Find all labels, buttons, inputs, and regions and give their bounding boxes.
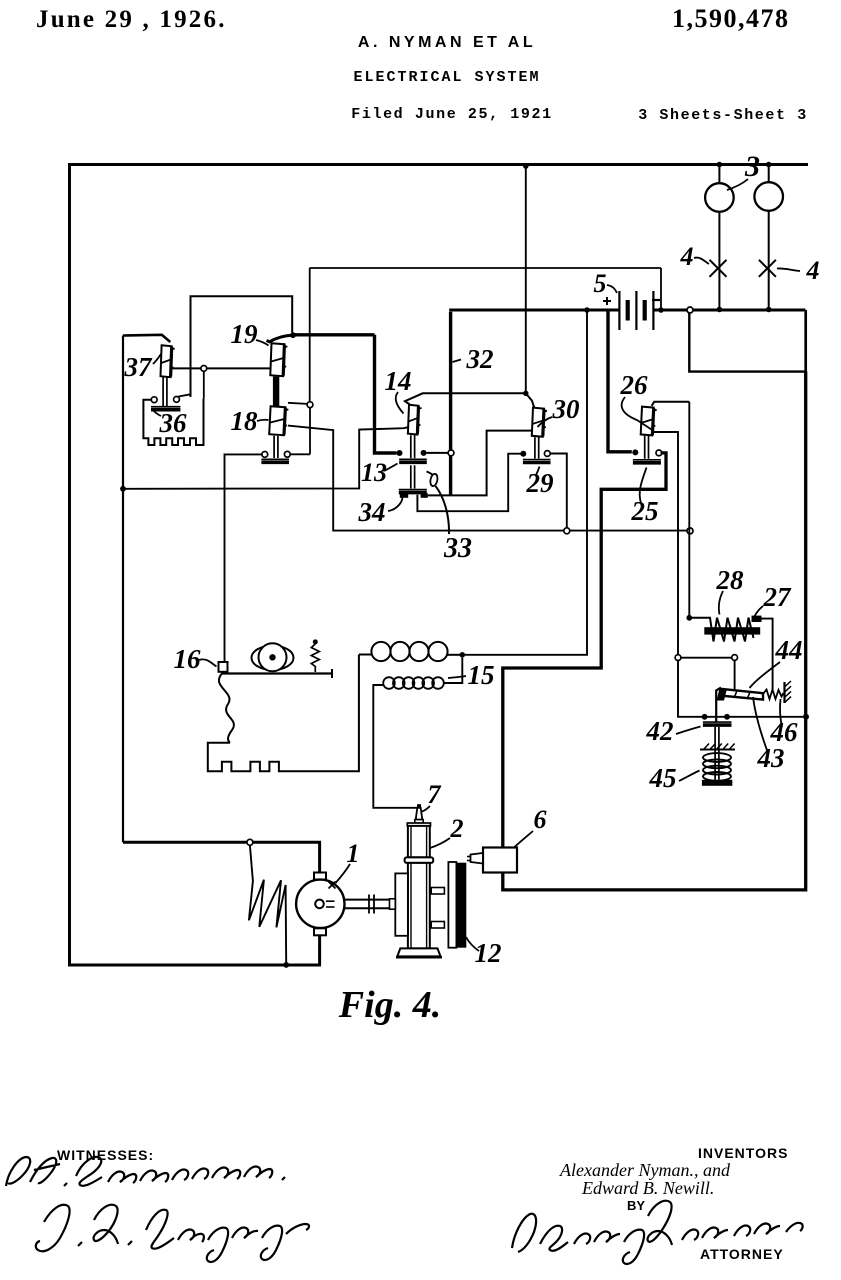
junction battery-left <box>584 307 590 313</box>
spark plug 7 <box>417 804 421 808</box>
contact 13 right <box>421 450 427 456</box>
relay coil 30 <box>532 408 544 437</box>
armature T-bar 42 <box>703 721 732 723</box>
leader 16 <box>199 659 217 666</box>
wire to 18 right contact h <box>290 453 310 455</box>
leader 4 right <box>777 268 800 271</box>
svg-text:36: 36 <box>159 408 188 438</box>
svg-text:BY: BY <box>627 1198 645 1213</box>
wire 26 hat lead <box>652 402 690 406</box>
coupling a <box>368 895 370 914</box>
junction 15 <box>460 652 466 658</box>
wire 37-19 y368 <box>171 367 270 369</box>
leader 13 <box>384 464 398 472</box>
leader 27 <box>753 606 764 622</box>
wire x309 drop to relay 18 contact <box>309 268 311 402</box>
junction spring-y842 <box>247 839 253 845</box>
rod 14 lower <box>410 465 412 488</box>
leader 42 <box>676 727 701 735</box>
leader 3 <box>727 179 748 190</box>
core dot 16 <box>269 654 275 660</box>
spring 46 anchor hatching <box>783 682 785 703</box>
battery + thick lead to 25 left contact <box>608 310 632 452</box>
bus wire left of battery <box>449 309 619 312</box>
leader 33 <box>436 486 450 534</box>
wire x661 drop <box>660 268 662 309</box>
svg-text:33: 33 <box>443 533 472 564</box>
leader 15 <box>448 676 466 678</box>
svg-text:30: 30 <box>552 394 581 424</box>
contact 13 left <box>397 450 403 456</box>
svg-text:3: 3 <box>744 150 760 183</box>
battery 5 plates <box>618 291 620 330</box>
gear 12 toothed band <box>456 863 466 948</box>
leader 37 <box>153 354 161 364</box>
leader 14 <box>396 392 404 414</box>
contact 37 left <box>151 397 157 403</box>
terminal x678 <box>675 655 681 661</box>
svg-text:45: 45 <box>649 763 677 793</box>
relay coil 37 <box>161 345 172 377</box>
leader 36 <box>154 411 162 417</box>
wire 26 side lead down to 42 <box>653 432 678 655</box>
armature T-bar 25 <box>633 459 661 461</box>
junction border-42 <box>803 714 809 720</box>
wire y657 to arm pivot <box>681 657 732 659</box>
coil 15 secondary right lead <box>444 658 463 683</box>
svg-text:43: 43 <box>757 743 785 773</box>
terminal y530 b <box>687 528 693 534</box>
svg-text:1: 1 <box>347 839 360 868</box>
svg-text:2: 2 <box>450 814 464 843</box>
switch 4a <box>710 260 727 277</box>
comb 36 sawtooth <box>143 399 203 445</box>
coil 15 secondary <box>383 677 395 689</box>
armature bar 16 <box>222 672 332 674</box>
loop mark 33 <box>429 473 438 487</box>
junction x123-y488 <box>120 486 126 492</box>
wire 18 lower side lead <box>288 426 687 531</box>
motor 1 top terminal <box>314 873 326 880</box>
motor bottom lead <box>318 935 321 965</box>
leader 7 <box>422 806 430 812</box>
svg-text:June 29 , 1926.: June 29 , 1926. <box>36 6 227 33</box>
svg-text:25: 25 <box>631 496 659 526</box>
svg-text:A. NYMAN ET AL: A. NYMAN ET AL <box>358 34 536 51</box>
svg-text:27: 27 <box>763 582 793 612</box>
svg-text:4: 4 <box>806 256 820 285</box>
lamp 3a lower lead <box>718 212 720 310</box>
engine left bracket <box>395 873 408 935</box>
contact 25 left <box>632 449 638 455</box>
leader 6 <box>515 831 534 847</box>
drop to comb 36 <box>203 371 205 398</box>
junction lamp3b-border <box>766 162 772 168</box>
svg-text:42: 42 <box>646 716 674 746</box>
contact 18 left <box>262 452 268 458</box>
wire 13 right contact to 32 <box>427 452 448 454</box>
svg-text:16: 16 <box>174 644 202 674</box>
engine base <box>397 948 440 956</box>
thick wire y335 <box>293 333 375 336</box>
coupling b <box>373 895 375 914</box>
svg-text:19: 19 <box>231 319 259 349</box>
outer border bottom <box>68 964 321 967</box>
svg-text:29: 29 <box>526 468 555 498</box>
terminal 18 upper <box>307 402 313 408</box>
engine cylinder 2 upper <box>407 823 430 826</box>
contact 18 right <box>284 451 290 457</box>
leader 33 tail <box>427 472 433 475</box>
wire 18 left contact to device 16 <box>225 454 263 661</box>
svg-text:WITNESSES:: WITNESSES: <box>57 1147 154 1163</box>
thick wire 25 to box 6 to right border <box>503 371 806 890</box>
armature T-bar 18 <box>261 458 289 460</box>
wire 34 to relay 30 coil <box>428 431 532 496</box>
leader 43 <box>753 697 768 753</box>
terminal on wire 37-19 <box>201 366 207 372</box>
leader 46 <box>780 699 782 727</box>
wire y371 to x689 riser to bus <box>689 313 804 371</box>
rod 14 upper <box>410 435 412 458</box>
leader 34 <box>388 498 403 512</box>
svg-text:32: 32 <box>466 344 494 374</box>
leader 25 <box>640 468 647 504</box>
coil 15 primary <box>371 642 390 661</box>
svg-text:44: 44 <box>775 635 803 665</box>
condenser box 6 <box>483 848 517 873</box>
motor shaft small circle <box>315 900 324 909</box>
svg-text:1,590,478: 1,590,478 <box>672 4 790 33</box>
base plate 45 <box>702 780 732 786</box>
leader 30 <box>538 417 553 427</box>
wire 18 coil top lead <box>288 403 307 404</box>
junction spring-bottom <box>283 962 289 968</box>
wire x689 down through y530 to resistor <box>688 402 690 618</box>
leader 19 <box>256 340 269 346</box>
contact 29 right <box>544 451 550 457</box>
svg-text:Filed June 25, 1921: Filed June 25, 1921 <box>351 106 552 123</box>
spring 46 <box>763 690 784 700</box>
coil 15 secondary left lead to plug <box>373 685 416 808</box>
leader 1 <box>336 864 351 883</box>
battery + sign <box>603 300 611 302</box>
rod 30 <box>534 437 536 458</box>
motor 1 body <box>296 880 344 928</box>
battery - sign <box>652 299 660 301</box>
leader 18 <box>257 420 269 421</box>
gear 12 rim <box>448 862 456 948</box>
thick wire 32 lower <box>449 312 452 496</box>
junction box-thickwire <box>290 332 296 338</box>
coil 15 left lead <box>359 654 372 656</box>
relay coil 18 <box>269 406 285 435</box>
svg-text:6: 6 <box>534 805 547 834</box>
svg-text:7: 7 <box>428 780 442 809</box>
arm 44 pivot bracket <box>716 688 721 722</box>
wire x123 left riser <box>122 336 124 843</box>
bar end tick <box>331 669 333 678</box>
junction battery-right <box>658 307 664 313</box>
svg-text:Edward B. Newill.: Edward B. Newill. <box>581 1178 714 1198</box>
contact block 27 <box>752 616 762 622</box>
svg-text:12: 12 <box>475 938 502 968</box>
armature T-bar 34 <box>399 489 427 491</box>
spring top dot <box>313 639 318 644</box>
junction lamp3b-bus <box>766 307 772 313</box>
motor 1 bottom terminal <box>314 928 326 935</box>
svg-text:3 Sheets-Sheet 3: 3 Sheets-Sheet 3 <box>638 107 808 124</box>
wire hat 14 to x526 <box>405 393 526 404</box>
junction resistor left <box>686 615 692 621</box>
lamp 3b lead <box>768 165 770 184</box>
armature T-bar 36 <box>151 406 180 408</box>
outer border left <box>68 163 71 967</box>
terminal y530 a <box>564 528 570 534</box>
terminal on 32 <box>448 450 454 456</box>
svg-text:5: 5 <box>594 269 607 298</box>
junction lamp3a-border <box>717 162 723 168</box>
leader 12 <box>466 937 479 951</box>
thick wire y842 <box>123 842 320 872</box>
outer border top <box>68 163 808 166</box>
armature T-bar 29 <box>523 459 551 461</box>
spring (zigzag) left <box>249 845 286 963</box>
svg-text:13: 13 <box>361 458 387 487</box>
svg-text:28: 28 <box>716 565 745 595</box>
device 16 armature block <box>219 662 228 672</box>
signature L.F. Sonnemann <box>6 1157 285 1186</box>
contact 42 right <box>724 714 730 720</box>
leader 26 <box>622 397 652 430</box>
wire x678 to 42 contacts <box>678 661 803 717</box>
signature J. R. Langley <box>36 1205 309 1262</box>
wire 27 to arm contact <box>762 619 773 690</box>
relay coil 14 <box>408 405 419 435</box>
terminal on bus <box>687 307 693 313</box>
signature attorney <box>512 1201 803 1264</box>
magnet coil 16 <box>252 646 294 670</box>
flange band <box>405 857 434 863</box>
contact 37 right <box>174 397 180 403</box>
engine cylinder 2 lower <box>408 863 430 949</box>
rod 42 <box>714 727 716 780</box>
terminal arm drop <box>732 655 738 661</box>
leader 5 <box>607 285 617 293</box>
wavy wire 16 to comb <box>219 673 234 743</box>
rod 37 <box>162 378 164 407</box>
contact arm 43/44 <box>721 689 764 700</box>
wire left riser top to 37 roof <box>123 335 170 342</box>
wire box around 19 <box>191 296 293 397</box>
T-bar 34 feet <box>400 493 408 498</box>
contact 29 left <box>520 451 526 457</box>
bus wire right of battery <box>653 309 805 312</box>
leader 45 <box>679 771 700 782</box>
wire y488 to relay 14 <box>123 427 408 489</box>
svg-text:Alexander Nyman., and: Alexander Nyman., and <box>559 1160 731 1180</box>
svg-text:15: 15 <box>468 660 495 690</box>
leader 2 <box>430 838 450 848</box>
leader 28 <box>719 591 723 615</box>
resistor 27 core bar <box>704 627 760 634</box>
svg-text:34: 34 <box>358 497 386 527</box>
lamp 3b <box>754 182 783 211</box>
core 19-18 <box>273 377 279 407</box>
junction lamp3a-bus <box>717 307 723 313</box>
leader 44 <box>750 662 781 688</box>
wire y268 <box>310 267 662 269</box>
armature T-bar 13 <box>399 458 427 460</box>
hat of relay 30 <box>526 393 534 407</box>
wire battery dot down to coil 15 <box>465 310 587 655</box>
engine-gear brackets <box>431 888 444 895</box>
thick wire 32 vertical <box>375 335 397 453</box>
junction border-x526 <box>523 163 529 169</box>
shaft to engine <box>344 899 389 901</box>
svg-text:37: 37 <box>124 352 154 382</box>
wire to 37 right contact <box>179 394 191 396</box>
svg-text:4: 4 <box>680 242 694 271</box>
lamp 3a <box>705 183 734 212</box>
svg-text:18: 18 <box>231 406 259 436</box>
bus right corner down <box>804 310 807 372</box>
contact 25 right <box>656 450 662 456</box>
leader 4 left <box>694 258 709 264</box>
hat of relay 19 <box>267 335 293 342</box>
leader 32 <box>453 360 462 363</box>
coil 15 right lead <box>447 654 462 656</box>
rod 26 <box>644 436 646 459</box>
switch 4b <box>759 260 776 277</box>
wire to 18 right contact <box>309 408 311 455</box>
svg-text:14: 14 <box>385 366 412 396</box>
junction x526-hat30 <box>523 391 528 396</box>
contact 42 left <box>702 714 708 720</box>
spring 45 coil <box>703 753 731 762</box>
svg-text:ELECTRICAL SYSTEM: ELECTRICAL SYSTEM <box>353 69 540 86</box>
wire 29 right contact to y530 <box>550 454 567 528</box>
svg-text:Fig. 4.: Fig. 4. <box>338 984 441 1026</box>
wire 34 to 29 left contact <box>417 454 520 512</box>
x mark on motor <box>329 882 336 889</box>
spring 45 anchor hatching <box>700 749 735 751</box>
svg-text:ATTORNEY: ATTORNEY <box>700 1246 784 1262</box>
svg-text:INVENTORS: INVENTORS <box>698 1145 788 1161</box>
wire x526 top to relay 30 <box>525 166 527 393</box>
comb below 16 <box>208 655 359 772</box>
svg-text:26: 26 <box>620 370 649 400</box>
relay coil 26 <box>641 407 654 436</box>
lamp 3a lead <box>718 165 720 185</box>
relay coil 19 <box>270 343 284 376</box>
resistor 28 winding <box>689 618 753 642</box>
rod 18 <box>273 436 275 458</box>
leader 29 <box>536 467 540 476</box>
lamp 3b lower lead <box>768 211 770 310</box>
